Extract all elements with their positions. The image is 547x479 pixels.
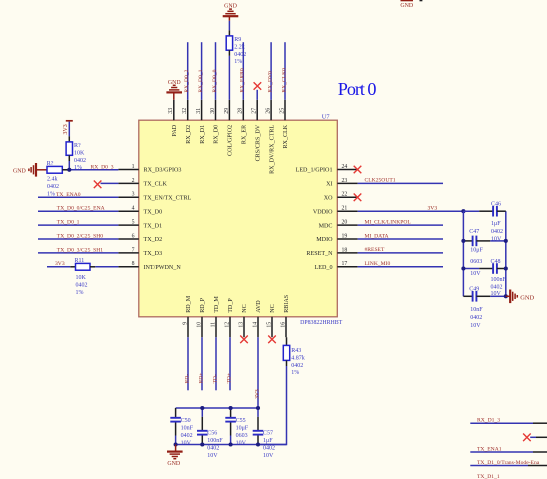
svg-text:28: 28 <box>238 108 244 114</box>
wire left rail to C47 <box>463 240 472 242</box>
junction top rail AVD/C57 <box>256 406 260 410</box>
svg-text:23: 23 <box>342 178 348 184</box>
svg-text:RX_CLK: RX_CLK <box>283 124 289 148</box>
svg-text:4.87k: 4.87k <box>291 355 305 361</box>
svg-text:TX_D1_0/Trans-Mode-Ena: TX_D1_0/Trans-Mode-Ena <box>477 460 540 466</box>
ground GND at resistor R? 2.4k <box>13 163 47 177</box>
pin 10 RD_P <box>196 297 206 337</box>
pin 22 XO <box>324 192 358 202</box>
svg-text:14: 14 <box>252 322 258 328</box>
svg-text:R?: R? <box>74 143 81 149</box>
svg-text:RD-: RD- <box>184 374 190 384</box>
svg-text:0402: 0402 <box>181 433 193 439</box>
wire R11 to pin8 <box>95 266 118 268</box>
svg-text:R9: R9 <box>234 37 241 43</box>
ground GND at cap bank <box>506 290 535 304</box>
svg-text:U7: U7 <box>322 113 331 120</box>
pin 25 RX_CLK <box>279 100 289 149</box>
svg-text:10V: 10V <box>236 441 247 447</box>
pin 32 RX_D2 <box>182 100 192 144</box>
svg-text:0402: 0402 <box>74 158 86 164</box>
svg-text:7: 7 <box>132 247 135 253</box>
svg-text:3V3: 3V3 <box>254 389 260 399</box>
svg-text:10nF: 10nF <box>181 426 194 432</box>
svg-text:25: 25 <box>279 108 285 114</box>
C50 value labels <box>181 418 194 447</box>
pin 5 TX_D1 <box>118 220 162 230</box>
svg-text:100nF: 100nF <box>491 277 507 283</box>
svg-text:RESET_N: RESET_N <box>306 251 333 257</box>
svg-text:DP83822HRHBT: DP83822HRHBT <box>300 320 343 326</box>
svg-text:10nF: 10nF <box>470 307 483 313</box>
svg-text:MDIO: MDIO <box>316 237 333 243</box>
svg-text:10V: 10V <box>207 453 218 459</box>
svg-text:1%: 1% <box>74 165 82 171</box>
ground GND at pin 33 PAD <box>166 80 182 100</box>
svg-text:GND: GND <box>520 294 534 301</box>
svg-text:R11: R11 <box>75 258 85 264</box>
pin 17 LED_0 <box>315 261 358 271</box>
svg-text:0402: 0402 <box>234 52 246 58</box>
svg-text:100nF: 100nF <box>207 438 223 444</box>
svg-text:10μF: 10μF <box>236 426 249 432</box>
svg-text:16: 16 <box>280 322 286 328</box>
svg-text:TD_P: TD_P <box>228 298 234 313</box>
svg-text:NC: NC <box>242 304 248 312</box>
svg-text:RX_ER: RX_ER <box>242 124 248 144</box>
pin 2 TX_CLK <box>118 178 167 188</box>
svg-text:C49: C49 <box>469 287 479 293</box>
svg-text:24: 24 <box>342 164 348 170</box>
svg-text:2: 2 <box>132 178 135 184</box>
svg-text:22: 22 <box>342 192 348 198</box>
svg-text:15: 15 <box>266 322 272 328</box>
svg-text:0402: 0402 <box>207 446 219 452</box>
capacitor C55 10μF <box>225 418 236 422</box>
svg-text:C46: C46 <box>491 201 501 207</box>
wire pin 23 <box>358 182 443 184</box>
junction 3V3 rail <box>461 209 465 213</box>
junction bottom rail GND <box>174 442 178 446</box>
svg-text:0603: 0603 <box>470 259 482 265</box>
svg-text:MI_CLK/LINKPOL: MI_CLK/LINKPOL <box>365 219 412 225</box>
pin 20 MDC <box>319 220 358 230</box>
resistor R11 10K <box>76 263 91 270</box>
svg-text:18: 18 <box>342 247 348 253</box>
capacitor C47 10uF <box>473 236 477 247</box>
svg-text:RX_D0_0: RX_D0_0 <box>212 69 218 92</box>
svg-text:GND: GND <box>13 168 27 174</box>
no-connect X pin 24 <box>354 166 362 174</box>
pin 30 RX_D0 <box>210 100 220 144</box>
svg-text:RX_D3/GPIO3: RX_D3/GPIO3 <box>144 168 182 174</box>
pin 14 AVD <box>252 300 262 337</box>
resistor R9 2.2k <box>226 36 232 50</box>
wire pin 27 stub <box>256 90 258 100</box>
pin 31 RX_D1 <box>196 100 206 144</box>
wire C47 to right rail <box>476 240 490 242</box>
svg-text:RX_D2: RX_D2 <box>186 125 192 144</box>
partial ground GND at top right <box>400 0 422 9</box>
wire pin 30 <box>215 42 217 100</box>
wire pin 16 to R43 <box>286 337 288 345</box>
ground GND below bottom cap bank <box>167 445 183 467</box>
wire C49 to right rail <box>476 295 490 297</box>
right rail of cap bank <box>505 211 507 296</box>
svg-text:VDDIO: VDDIO <box>313 209 333 215</box>
svg-text:RX_DV/RX_CTRL: RX_DV/RX_CTRL <box>269 125 275 174</box>
capacitor C48 100nF <box>493 263 497 274</box>
bottom rail of bottom cap bank <box>176 444 287 446</box>
no-connect X pin 27 <box>254 82 262 90</box>
wire pin 26 <box>270 42 272 100</box>
wire pin4 <box>38 210 118 212</box>
svg-text:1%: 1% <box>234 59 242 65</box>
svg-text:TX_D3: TX_D3 <box>144 251 163 257</box>
svg-text:8: 8 <box>132 261 135 267</box>
svg-text:10V: 10V <box>181 441 192 447</box>
no-connect X pin 15 <box>268 336 276 344</box>
wire branch C55 <box>230 408 232 418</box>
wire C48 to right rail <box>497 268 506 270</box>
pin 18 RESET_N <box>306 247 357 257</box>
svg-text:LED_0: LED_0 <box>315 265 333 271</box>
svg-text:TX_D0: TX_D0 <box>144 209 163 215</box>
power port 3V3 pull-up <box>63 121 73 135</box>
svg-text:RX_D1: RX_D1 <box>200 125 206 144</box>
svg-text:0402: 0402 <box>470 315 482 321</box>
wire pin 21 VDDIO 3V3 <box>358 210 464 212</box>
svg-text:3V3: 3V3 <box>428 206 438 212</box>
svg-text:TD+: TD+ <box>226 373 232 384</box>
pin 28 RX_ER <box>238 100 248 144</box>
svg-text:GND: GND <box>400 3 414 9</box>
svg-text:10V: 10V <box>491 237 502 243</box>
svg-text:9: 9 <box>182 322 188 325</box>
svg-text:32: 32 <box>182 108 188 114</box>
svg-text:TX_D0_3/C25_SH1: TX_D0_3/C25_SH1 <box>57 247 104 253</box>
svg-text:XI: XI <box>326 182 332 188</box>
top rail of bottom cap bank <box>176 407 258 409</box>
svg-text:R43: R43 <box>291 348 301 354</box>
wire 3V3 to R? <box>68 122 70 137</box>
svg-text:1μF: 1μF <box>491 221 501 227</box>
wire pin3 <box>38 196 118 198</box>
junction bottom rail C56 <box>200 442 204 446</box>
R? 2.4k value labels <box>47 161 59 198</box>
pin 21 VDDIO <box>313 206 358 216</box>
svg-text:26: 26 <box>266 108 272 114</box>
pin 27 CRS/CRS_DV <box>252 100 262 162</box>
svg-text:30: 30 <box>210 108 216 114</box>
svg-text:10K: 10K <box>76 275 87 281</box>
svg-text:33: 33 <box>168 108 174 114</box>
wire pin 14 AVD to cap bank <box>257 337 259 408</box>
svg-text:C57: C57 <box>263 430 273 436</box>
svg-text:3V3: 3V3 <box>63 124 69 134</box>
pin 6 TX_D2 <box>118 233 162 243</box>
svg-text:C55: C55 <box>236 418 246 424</box>
junction C48 right <box>504 266 508 270</box>
junction bottom rail C57 <box>256 442 260 446</box>
svg-text:Port 0: Port 0 <box>338 79 377 99</box>
junction bottom rail C55 <box>229 442 233 446</box>
wire net TX_ENA1 <box>470 451 533 453</box>
wire pin 12 <box>229 337 231 390</box>
svg-text:RX_D0_2: RX_D0_2 <box>184 69 190 92</box>
junction pin1 node <box>67 168 71 172</box>
wire pin 10 <box>201 337 203 390</box>
svg-text:C47: C47 <box>469 229 479 235</box>
wire pin 17 <box>358 266 443 268</box>
svg-text:RD_P: RD_P <box>200 297 206 313</box>
svg-text:COL/GPIO2: COL/GPIO2 <box>228 125 234 156</box>
svg-text:0402: 0402 <box>291 363 303 369</box>
ground GND above R9 <box>223 3 239 21</box>
wire pin 9 <box>187 337 189 390</box>
svg-text:0402: 0402 <box>491 284 503 290</box>
wire pin 32 <box>187 42 189 100</box>
svg-text:27: 27 <box>252 108 258 114</box>
capacitor C56 100nF <box>197 431 208 435</box>
svg-text:0603: 0603 <box>236 433 248 439</box>
svg-text:21: 21 <box>342 206 348 212</box>
left rail of cap bank <box>462 211 464 296</box>
wire pin 25 <box>284 42 286 100</box>
wire pin 18 <box>358 252 443 254</box>
svg-text:10V: 10V <box>470 323 481 329</box>
pin 13 NC <box>238 304 248 337</box>
C47 value labels <box>469 229 483 277</box>
svg-text:0402: 0402 <box>491 229 503 235</box>
svg-text:1%: 1% <box>76 290 84 296</box>
svg-text:CLK25OUT1: CLK25OUT1 <box>365 178 396 184</box>
svg-text:TX_D1: TX_D1 <box>144 223 163 229</box>
svg-text:1%: 1% <box>291 370 299 376</box>
svg-text:INT/PWDN_N: INT/PWDN_N <box>144 265 182 271</box>
svg-text:0402: 0402 <box>76 283 88 289</box>
wire 3V3 to R11 <box>47 266 70 268</box>
pin 1 RX_D3/GPIO3 <box>118 164 181 174</box>
pin 3 TX_EN/TX_CTRL <box>118 192 191 202</box>
wire branch C57 <box>257 408 259 417</box>
wire net TX_D1_0 <box>470 465 528 467</box>
svg-text:RX_ERR0: RX_ERR0 <box>240 68 246 92</box>
pin 7 TX_D3 <box>118 247 162 257</box>
svg-text:GND: GND <box>167 461 181 467</box>
svg-text:RX_DV0: RX_DV0 <box>268 71 274 93</box>
junction C48 left <box>461 266 465 270</box>
wire to C46 <box>463 210 479 212</box>
wire pin5 <box>38 224 118 226</box>
svg-text:LINK_MI0: LINK_MI0 <box>365 261 391 267</box>
wire pin 19 <box>358 238 443 240</box>
junction GND corner right rail <box>504 294 508 298</box>
svg-text:LED_1/GPIO1: LED_1/GPIO1 <box>296 168 333 174</box>
capacitor C57 1μF <box>253 431 264 435</box>
wire R43 down to rail <box>286 360 288 366</box>
C48 value labels <box>491 259 507 297</box>
svg-text:11: 11 <box>210 322 216 328</box>
svg-text:RX_CLK0: RX_CLK0 <box>281 68 287 93</box>
svg-text:19: 19 <box>342 233 348 239</box>
svg-text:TX_ENA1: TX_ENA1 <box>477 447 502 453</box>
svg-text:0402: 0402 <box>263 446 275 452</box>
svg-text:29: 29 <box>224 108 230 114</box>
pin 23 XI <box>326 178 358 188</box>
no-connect X pin 13 <box>240 336 248 344</box>
pin 11 TD_M <box>210 296 220 338</box>
svg-text:C48: C48 <box>491 259 501 265</box>
svg-text:TX_EN/TX_CTRL: TX_EN/TX_CTRL <box>144 196 192 202</box>
svg-text:#RESET: #RESET <box>365 247 385 253</box>
svg-text:1μF: 1μF <box>263 438 273 444</box>
svg-text:RD+: RD+ <box>198 373 204 384</box>
svg-text:C56: C56 <box>207 430 217 436</box>
svg-text:AVD: AVD <box>256 300 262 313</box>
wire pin 20 <box>358 224 443 226</box>
svg-text:XO: XO <box>324 196 333 202</box>
svg-text:TX_D2: TX_D2 <box>144 237 163 243</box>
svg-text:TX_ENA0: TX_ENA0 <box>56 192 81 198</box>
svg-text:RX_D0_3: RX_D0_3 <box>91 164 114 170</box>
wire net RX_D1_3 <box>470 422 533 424</box>
wire pin 28 <box>242 42 244 100</box>
svg-text:TD_M: TD_M <box>214 296 220 313</box>
svg-text:RX_D1_3: RX_D1_3 <box>477 418 500 424</box>
svg-text:0402: 0402 <box>47 184 59 190</box>
R43 value labels <box>291 348 305 376</box>
svg-text:R?: R? <box>47 161 54 167</box>
pin 16 RBIAS <box>280 294 290 337</box>
svg-text:31: 31 <box>196 108 202 114</box>
wire left rail to C48 <box>463 268 479 270</box>
svg-text:1: 1 <box>132 164 135 170</box>
svg-text:10: 10 <box>196 322 202 328</box>
R? 10K value labels <box>74 143 86 171</box>
pin 9 RD_M <box>182 295 192 337</box>
wire pin2 stub <box>101 182 119 184</box>
svg-text:TX_D0_2/C25_SH0: TX_D0_2/C25_SH0 <box>57 234 104 240</box>
wire R9 to pin 29 <box>228 56 230 100</box>
C49 value labels <box>469 287 483 329</box>
svg-text:TX_D0_0/C25_ENA: TX_D0_0/C25_ENA <box>57 206 105 212</box>
svg-text:6: 6 <box>132 233 135 239</box>
C55 value labels <box>236 418 249 447</box>
wire left rail to C49 <box>463 295 472 297</box>
pin 12 TD_P <box>224 298 234 338</box>
pin 19 MDIO <box>316 233 357 243</box>
wire pin7 <box>38 252 118 254</box>
svg-text:13: 13 <box>238 322 244 328</box>
svg-text:RD_M: RD_M <box>186 295 192 313</box>
resistor R? 10K <box>66 142 72 155</box>
pin 4 TX_D0 <box>118 206 162 216</box>
IC U7 DP83822HRHBT body <box>139 120 337 317</box>
no-connect X pin 2 <box>94 181 102 189</box>
svg-text:4: 4 <box>132 206 135 212</box>
svg-text:5: 5 <box>132 220 135 226</box>
svg-text:RBIAS: RBIAS <box>284 294 290 313</box>
svg-text:RX_D0_1: RX_D0_1 <box>198 69 204 92</box>
resistor R? 2.4k <box>47 166 62 173</box>
junction C47 right <box>504 239 508 243</box>
svg-text:10μF: 10μF <box>470 247 483 253</box>
wire GND to R9 <box>228 21 230 31</box>
svg-text:20: 20 <box>342 220 348 226</box>
wire pin 11 <box>215 337 217 390</box>
svg-text:TX_CLK: TX_CLK <box>144 182 168 188</box>
C46 value labels <box>491 201 503 242</box>
capacitor C46 1uF <box>493 206 497 217</box>
svg-text:NC: NC <box>270 304 276 312</box>
wire branch C56 <box>201 408 203 417</box>
svg-text:3: 3 <box>132 192 135 198</box>
junction top rail C55 <box>229 406 233 410</box>
svg-text:RX_D0: RX_D0 <box>214 125 220 144</box>
capacitor C49 10nF <box>473 291 477 302</box>
C56 value labels <box>207 430 223 459</box>
svg-text:10V: 10V <box>263 453 274 459</box>
junction C47 left <box>461 239 465 243</box>
svg-text:10K: 10K <box>74 150 85 156</box>
svg-text:17: 17 <box>342 261 348 267</box>
pin 26 RX_DV/RX_CTRL <box>266 100 276 174</box>
pin 24 LED_1/GPIO1 <box>296 164 358 174</box>
wire pin 31 <box>201 42 203 100</box>
svg-text:12: 12 <box>224 322 230 328</box>
svg-text:TX_D1_1: TX_D1_1 <box>477 474 500 479</box>
wire pin6 <box>38 238 118 240</box>
C57 value labels <box>263 430 275 459</box>
junction top rail C56 <box>200 406 204 410</box>
wire stub at X <box>530 436 536 438</box>
wire branch C50 <box>175 408 177 418</box>
pin 15 NC <box>266 304 276 337</box>
capacitor C50 10nF <box>170 418 181 422</box>
resistor R43 4.87k <box>283 345 289 360</box>
svg-text:PAD: PAD <box>172 124 178 136</box>
svg-text:MDC: MDC <box>319 223 333 229</box>
wire pin1 to junction <box>62 169 118 171</box>
pin 8 INT/PWDN_N <box>118 261 181 271</box>
pin 29 COL/GPIO2 <box>224 100 234 156</box>
wire C46 to right rail <box>497 210 506 212</box>
pin 33 PAD <box>168 100 178 137</box>
svg-text:MI_DATA: MI_DATA <box>365 233 389 239</box>
svg-text:2.4k: 2.4k <box>47 177 58 183</box>
svg-text:TX_D0_1: TX_D0_1 <box>57 220 80 226</box>
wire R? to junction <box>68 161 70 170</box>
R11 value labels <box>75 258 88 296</box>
svg-text:TD-: TD- <box>212 374 218 383</box>
svg-text:C50: C50 <box>181 418 191 424</box>
svg-text:CRS/CRS_DV: CRS/CRS_DV <box>255 124 261 161</box>
svg-text:10V: 10V <box>470 271 481 277</box>
no-connect X pin 22 <box>354 194 362 202</box>
no-connect X stub <box>523 434 531 442</box>
R9 value labels <box>234 37 246 65</box>
